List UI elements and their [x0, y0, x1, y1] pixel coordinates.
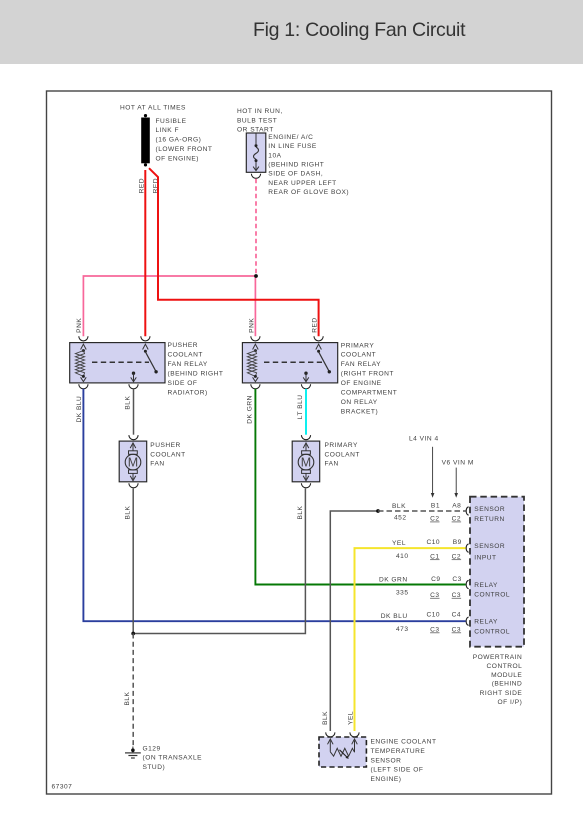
wire DK GRN label: [247, 395, 254, 424]
svg-text:CONTROL: CONTROL: [474, 628, 510, 635]
svg-text:PUSHER: PUSHER: [168, 342, 198, 349]
wire BLK label below primary fan: [297, 505, 304, 519]
svg-text:C10: C10: [426, 612, 440, 619]
svg-text:FAN: FAN: [150, 461, 164, 468]
svg-text:OF I/P): OF I/P): [498, 699, 523, 706]
node HOT IN RUN label: [237, 108, 283, 134]
svg-text:PRIMARY: PRIMARY: [341, 342, 375, 349]
ground G129 label: [143, 745, 203, 770]
fuse ENGINE/AC 10A: [246, 133, 265, 172]
svg-text:L4 VIN 4: L4 VIN 4: [409, 435, 439, 442]
svg-text:G129: G129: [143, 745, 161, 752]
node V6 VIN M label: [442, 460, 474, 467]
terminal relay control 2: [466, 617, 468, 625]
wire PNK label left: [76, 318, 83, 333]
svg-text:RED: RED: [312, 317, 319, 332]
wire PNK label right: [249, 318, 256, 333]
svg-text:67307: 67307: [52, 784, 73, 791]
svg-text:B9: B9: [453, 539, 462, 546]
motor M1 pusher coolant fan: [119, 435, 147, 488]
relay K2 primary coolant fan relay: [242, 336, 337, 389]
wire blk dashed to G129: [132, 634, 134, 747]
svg-text:ENGINE): ENGINE): [371, 776, 402, 783]
label YEL 410 row: [392, 540, 408, 560]
svg-text:DK BLU: DK BLU: [381, 613, 408, 620]
wire blk pusher relay to fan: [133, 389, 135, 435]
svg-text:SIDE OF DASH,: SIDE OF DASH,: [268, 171, 323, 178]
svg-text:BLK: BLK: [392, 503, 406, 510]
svg-text:YEL: YEL: [392, 540, 406, 547]
arrow V6 to pin A8: [454, 468, 458, 498]
ground G129: [125, 747, 141, 759]
module U1 pin functions: [474, 506, 510, 636]
svg-text:COOLANT: COOLANT: [150, 451, 185, 458]
svg-text:DK BLU: DK BLU: [76, 396, 83, 423]
svg-text:C10: C10: [426, 539, 440, 546]
svg-text:BLK: BLK: [124, 691, 131, 705]
wire RED label right: [312, 317, 319, 332]
svg-text:BLK: BLK: [297, 505, 304, 519]
header bar: [0, 0, 583, 64]
node HOT AT ALL TIMES label: [120, 104, 186, 111]
label DK BLU 473 row: [381, 613, 409, 633]
pins C10 C1 B9 C2 row2: [426, 539, 461, 561]
svg-text:HOT IN RUN,: HOT IN RUN,: [237, 108, 283, 115]
wire BLK label pusher: [125, 396, 132, 410]
svg-text:BLK: BLK: [125, 505, 132, 519]
svg-text:(BEHIND: (BEHIND: [492, 681, 523, 688]
sensor RT1 engine coolant temperature sensor: [319, 732, 366, 767]
terminal relay control 1: [466, 580, 468, 588]
fusible link F: [141, 114, 150, 166]
svg-text:(BEHIND RIGHT: (BEHIND RIGHT: [168, 371, 224, 378]
svg-text:FAN RELAY: FAN RELAY: [341, 361, 381, 368]
junction ground splice: [131, 632, 135, 636]
wire blk ect sensor return: [330, 511, 378, 731]
svg-text:C2: C2: [430, 516, 439, 523]
svg-text:YEL: YEL: [348, 711, 355, 725]
svg-text:RIGHT SIDE: RIGHT SIDE: [480, 690, 523, 697]
svg-text:FUSIBLE: FUSIBLE: [156, 118, 187, 125]
svg-text:BLK: BLK: [322, 711, 329, 725]
drawing number 67307: [52, 784, 73, 791]
svg-text:C1: C1: [430, 553, 439, 560]
wire BLK label ect: [322, 711, 329, 725]
svg-text:RADIATOR): RADIATOR): [168, 390, 208, 397]
svg-text:(RIGHT FRONT: (RIGHT FRONT: [341, 371, 394, 378]
svg-text:PNK: PNK: [76, 318, 83, 333]
svg-text:INPUT: INPUT: [474, 555, 496, 562]
label BLK 452 row: [392, 503, 406, 521]
svg-text:LINK F: LINK F: [156, 127, 180, 134]
svg-text:PRIMARY: PRIMARY: [325, 442, 359, 449]
fuse label: [268, 134, 349, 196]
wire pink to primary relay coil: [254, 276, 256, 336]
svg-text:10A: 10A: [268, 152, 281, 159]
sensor RT1 label: [371, 739, 437, 783]
svg-text:B1: B1: [431, 502, 440, 509]
svg-text:STUD): STUD): [143, 764, 166, 771]
svg-text:452: 452: [394, 514, 407, 521]
svg-text:C3: C3: [452, 576, 461, 583]
svg-text:C3: C3: [452, 592, 461, 599]
wire BLK label to G129: [124, 691, 131, 705]
module U1 powertrain control module: [470, 497, 524, 647]
svg-text:SENSOR: SENSOR: [474, 506, 505, 513]
svg-text:COOLANT: COOLANT: [168, 352, 203, 359]
terminal sensor return: [466, 507, 468, 515]
svg-text:335: 335: [396, 589, 409, 596]
diagram border frame: [47, 91, 552, 794]
terminal sensor input: [466, 544, 468, 552]
svg-text:HOT AT ALL TIMES: HOT AT ALL TIMES: [120, 104, 186, 111]
svg-text:IN LINE FUSE: IN LINE FUSE: [268, 143, 317, 150]
svg-text:(LOWER FRONT: (LOWER FRONT: [156, 146, 213, 153]
arrow L4 to pin B1: [431, 447, 435, 498]
svg-text:RELAY: RELAY: [474, 619, 498, 626]
svg-text:C3: C3: [430, 592, 439, 599]
svg-text:NEAR UPPER LEFT: NEAR UPPER LEFT: [268, 180, 336, 187]
wire blk pusher fan ground: [132, 488, 134, 633]
svg-text:MODULE: MODULE: [491, 672, 522, 679]
pins C9 C3 C3 C3 row3: [430, 576, 462, 599]
wire blk primary fan ground: [133, 488, 305, 633]
svg-text:PUSHER: PUSHER: [150, 442, 180, 449]
junction sensor return splice: [376, 509, 380, 513]
svg-text:C9: C9: [431, 576, 440, 583]
svg-text:COOLANT: COOLANT: [341, 352, 376, 359]
svg-text:C3: C3: [452, 627, 461, 634]
svg-text:C3: C3: [430, 627, 439, 634]
label DK GRN 335 row: [379, 577, 409, 597]
svg-text:BLK: BLK: [125, 396, 132, 410]
pins C10 C3 C4 C3 row4: [426, 612, 461, 634]
wire BLK label below pusher fan: [125, 505, 132, 519]
wire YEL label ect: [348, 711, 355, 725]
wire yellow sensor input: [355, 548, 466, 731]
wire blk dashed to PCM B1/A8: [378, 510, 466, 512]
svg-text:POWERTRAIN: POWERTRAIN: [473, 654, 523, 661]
title: [253, 19, 465, 42]
svg-text:SIDE OF: SIDE OF: [168, 380, 198, 387]
motor M2 primary coolant fan: [292, 435, 320, 488]
fuse bottom connector: [251, 174, 260, 179]
wire pink to pusher relay coil: [83, 276, 256, 336]
svg-text:ENGINE/ A/C: ENGINE/ A/C: [268, 134, 313, 141]
wire RED label 2: [153, 178, 160, 193]
svg-text:V6 VIN M: V6 VIN M: [442, 460, 474, 467]
svg-text:OF ENGINE: OF ENGINE: [341, 380, 382, 387]
svg-text:BULB TEST: BULB TEST: [237, 117, 277, 124]
svg-text:DK GRN: DK GRN: [379, 577, 408, 584]
svg-text:ON RELAY: ON RELAY: [341, 399, 378, 406]
module U1 label: [473, 654, 523, 706]
svg-text:C2: C2: [452, 553, 461, 560]
motor M1 label: [150, 442, 185, 468]
wire red to primary relay switch: [149, 168, 319, 336]
svg-text:(16 GA-ORG): (16 GA-ORG): [156, 137, 202, 144]
svg-text:COOLANT: COOLANT: [325, 451, 360, 458]
svg-text:BRACKET): BRACKET): [341, 408, 378, 415]
relay K1 pusher coolant fan relay: [70, 336, 165, 389]
wire RED label 1: [138, 178, 145, 193]
svg-text:SENSOR: SENSOR: [371, 757, 402, 764]
wire lt blu primary relay to fan: [305, 389, 307, 435]
svg-text:(LEFT SIDE OF: (LEFT SIDE OF: [371, 767, 424, 774]
relay K1 label: [168, 342, 224, 397]
svg-text:M: M: [301, 455, 311, 469]
svg-text:LT BLU: LT BLU: [297, 394, 304, 419]
node L4 VIN 4 label: [409, 435, 439, 442]
wire dk grn from primary relay to PCM: [255, 389, 465, 585]
svg-text:A8: A8: [452, 502, 461, 509]
svg-text:COMPARTMENT: COMPARTMENT: [341, 390, 398, 397]
junction pink splice: [254, 274, 258, 278]
svg-text:RETURN: RETURN: [474, 516, 504, 523]
wire red to pusher relay switch: [144, 170, 146, 336]
svg-text:410: 410: [396, 553, 409, 560]
relay K2 label: [341, 342, 398, 415]
fusible link label: [156, 118, 213, 162]
svg-text:C4: C4: [452, 612, 461, 619]
svg-text:(BEHIND RIGHT: (BEHIND RIGHT: [268, 162, 324, 169]
wire LT BLU label: [297, 394, 304, 419]
svg-text:M: M: [128, 455, 138, 469]
svg-text:C2: C2: [452, 516, 461, 523]
pins B1 C2 A8 C2 row1: [430, 502, 461, 522]
svg-text:OF ENGINE): OF ENGINE): [156, 155, 199, 162]
svg-text:SENSOR: SENSOR: [474, 543, 505, 550]
motor M2 label: [325, 442, 360, 468]
wire dk blu from pusher relay to PCM: [83, 389, 465, 621]
wire DK BLU label: [76, 396, 83, 423]
svg-text:TEMPERATURE: TEMPERATURE: [371, 748, 426, 755]
svg-text:CONTROL: CONTROL: [487, 663, 523, 670]
svg-text:(ON TRANSAXLE: (ON TRANSAXLE: [143, 755, 203, 762]
svg-text:RELAY: RELAY: [474, 582, 498, 589]
svg-text:ENGINE COOLANT: ENGINE COOLANT: [371, 739, 437, 746]
wire pink dashed from fuse: [255, 179, 257, 276]
svg-text:DK GRN: DK GRN: [247, 395, 254, 424]
svg-text:REAR OF GLOVE BOX): REAR OF GLOVE BOX): [268, 189, 349, 196]
svg-text:FAN RELAY: FAN RELAY: [168, 361, 208, 368]
svg-text:473: 473: [396, 626, 409, 633]
svg-text:FAN: FAN: [325, 461, 339, 468]
svg-text:CONTROL: CONTROL: [474, 592, 510, 599]
